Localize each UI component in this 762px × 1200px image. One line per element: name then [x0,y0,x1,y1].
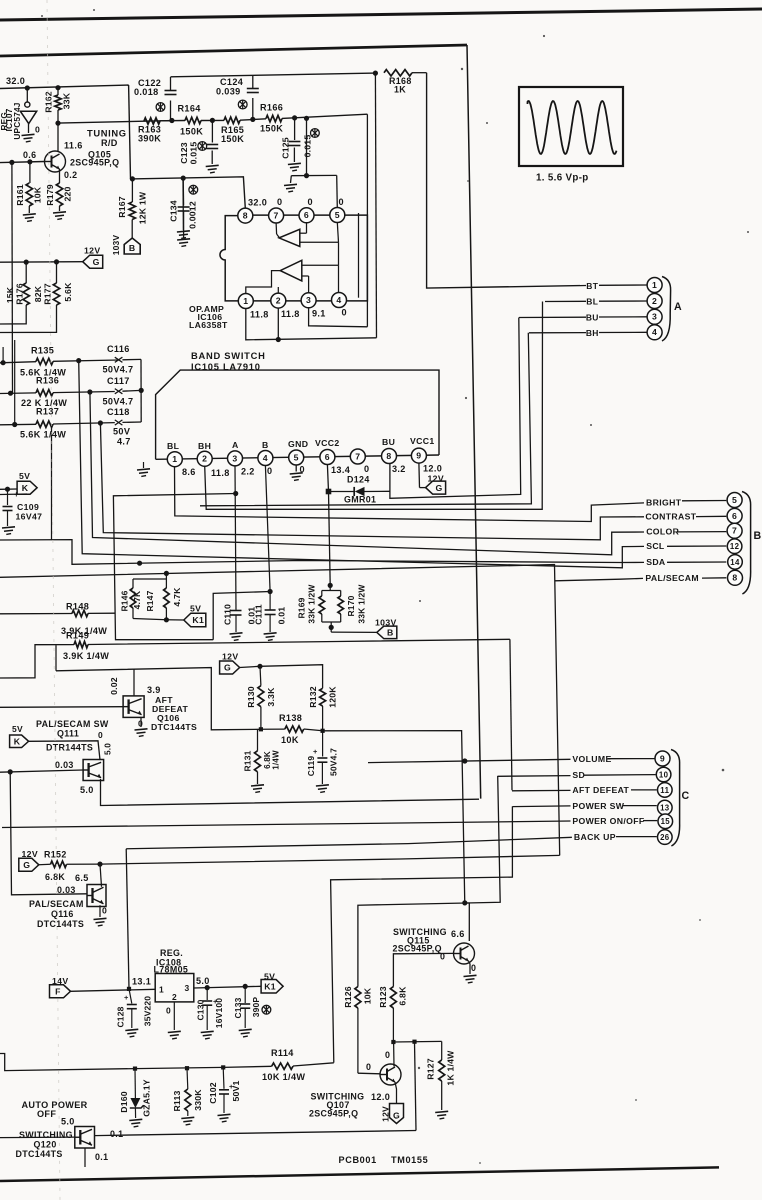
svg-text:GMR01: GMR01 [344,495,376,505]
svg-text:C117: C117 [107,376,130,386]
resistor R123 6.8K [390,987,396,1008]
capacitor C109 16V47 [7,489,9,505]
wire Q115 collector tap [466,903,469,941]
capacitor C128 35V220 [129,989,132,1004]
svg-text:BL: BL [167,441,180,451]
capacitor C134 0.0012 [182,178,184,205]
svg-text:3.9K 1/4W: 3.9K 1/4W [63,651,109,661]
svg-text:33K 1/2W: 33K 1/2W [306,584,316,623]
svg-text:0.03: 0.03 [57,885,76,895]
svg-text:50V4.7: 50V4.7 [328,748,338,776]
connector A pin 3 [647,309,662,324]
connector C pin 26 [658,830,673,845]
wire AFT filter to VOLUME riser [323,731,465,905]
resistor R138 10K [261,728,285,730]
svg-text:C111: C111 [253,604,263,625]
svg-text:0.1: 0.1 [95,1152,108,1162]
svg-text:POWER SW: POWER SW [572,801,624,811]
wire COLOR net from R136 row [90,391,644,555]
connector B pin 6 [727,508,742,523]
svg-text:6: 6 [304,210,309,220]
resistor R148 3.9K 1/4W [0,613,72,615]
connector B pin 14 [728,555,743,570]
ground [2,527,15,528]
connector B bracket [742,492,751,595]
svg-text:G: G [23,860,30,870]
svg-text:3: 3 [185,983,190,993]
connector C pin 15 [658,814,673,829]
svg-text:9: 9 [660,753,665,763]
wire R177 bottom to left [0,305,57,333]
connector A pin 4 [647,325,662,340]
svg-text:K: K [22,483,29,493]
junction [292,115,297,120]
ground [288,163,301,164]
flag 5V K [0,488,17,490]
svg-text:R/D: R/D [101,138,118,148]
resistor R149 3.9K 1/4W [0,645,74,678]
svg-text:8: 8 [243,211,248,221]
capacitor C130 16V100 [206,988,208,1000]
junction [55,85,60,90]
svg-text:3: 3 [652,312,657,322]
svg-text:PAL/SECAM: PAL/SECAM [645,573,699,583]
ground [125,1029,138,1030]
resistor R135 5.6K 1/4W [0,362,36,363]
svg-text:5: 5 [294,452,299,462]
wire 14V to IC108 [71,989,156,991]
wire left vertical from base row down to R136 row [11,162,14,392]
junction [276,337,281,342]
test point [262,1005,271,1014]
svg-text:SDA: SDA [646,557,666,567]
svg-text:CONTRAST: CONTRAST [645,511,696,521]
wire SD row [498,775,571,778]
op-amp triangle 2 [280,260,302,281]
resistor pair R146 R147 4.7K [165,573,167,579]
svg-text:4.7K: 4.7K [172,587,182,607]
svg-text:12V: 12V [222,652,238,662]
svg-text:12V: 12V [22,849,38,859]
svg-text:0: 0 [277,197,282,207]
wire top border line [0,9,762,20]
capacitor C123 0.015 [211,120,213,142]
svg-text:330K: 330K [193,1089,203,1111]
svg-text:7: 7 [732,526,737,536]
capacitor C119 50V4.7 [322,731,324,757]
svg-text:10K: 10K [281,735,299,745]
junction [164,571,169,576]
svg-text:BL: BL [586,297,598,307]
wire R176 bottom to left [0,305,26,324]
wire to pin5 [336,175,339,207]
wire POWER ON/OFF line [2,823,401,828]
svg-text:D160: D160 [119,1091,129,1113]
svg-text:0.6: 0.6 [23,150,36,160]
svg-text:150K: 150K [180,127,203,137]
svg-text:14: 14 [730,558,740,567]
wire second border line [0,45,467,56]
connector C pin 13 [658,800,673,815]
svg-text:+: + [313,747,318,756]
svg-text:0: 0 [35,124,40,134]
svg-text:BH: BH [198,441,211,451]
svg-text:DTC144TS: DTC144TS [151,722,197,732]
svg-text:R136: R136 [36,376,59,386]
svg-text:B: B [262,440,269,450]
svg-text:0: 0 [166,1006,171,1016]
svg-text:16V100: 16V100 [214,998,224,1028]
wire SCL net from R135 row [79,360,644,567]
svg-text:8: 8 [386,451,391,461]
svg-text:R148: R148 [66,602,89,612]
wire Q107 emitter to 12V flag [395,1082,397,1104]
svg-text:R164: R164 [178,104,202,114]
svg-text:SCL: SCL [646,541,665,551]
IC105 pin 5 [289,450,304,465]
svg-text:10K 1/4W: 10K 1/4W [262,1072,305,1082]
svg-text:5.0: 5.0 [80,785,94,795]
svg-text:5V: 5V [19,471,30,481]
wire BU line [519,316,586,318]
wire bottom border line [0,1167,719,1181]
svg-text:0.02: 0.02 [109,677,119,695]
svg-text:DTR144TS: DTR144TS [46,743,93,753]
svg-text:6: 6 [732,511,737,521]
wire vertical stub [51,424,53,540]
svg-text:BT: BT [586,281,598,291]
resistor R136 22K 1/4W [0,392,36,395]
svg-text:TUNING: TUNING [87,128,127,138]
svg-text:2SC945P,Q: 2SC945P,Q [393,944,442,954]
test point [198,142,207,151]
svg-text:K: K [14,737,21,747]
wire C110 lead from pin3 [235,466,236,610]
svg-text:+: + [14,490,19,499]
svg-text:C109: C109 [17,502,39,512]
wire IC106 pin3 rail [309,308,368,327]
wire drop to Q120 line [415,1042,417,1131]
resistor R165 150K [224,117,240,123]
svg-text:G: G [436,483,443,493]
svg-text:Q120: Q120 [34,1140,57,1150]
transistor Q105 2SC945P,Q TUNING [57,123,59,151]
wire pin6 riser to RC rail [306,118,308,175]
svg-text:0.039: 0.039 [216,87,241,97]
resistor R161 10K [29,162,31,183]
junction [24,260,29,265]
svg-text:C125: C125 [280,137,290,159]
connector C bracket [671,750,680,847]
resistor R114 10K 1/4W [272,1063,293,1069]
wire pin6 down with D124 junction [327,464,328,491]
svg-text:UPC574J: UPC574J [13,102,22,139]
regulator IC108 L78M05 [155,974,194,1002]
capacitor C122 0.018 [170,101,172,121]
wire Q120 collector line [95,1131,417,1136]
svg-text:C119: C119 [306,756,316,777]
svg-text:G: G [93,257,100,267]
op-amp IC106 pin 2 [271,293,286,308]
svg-text:3.9: 3.9 [147,685,161,695]
svg-text:9: 9 [416,451,421,461]
svg-text:16V47: 16V47 [16,512,43,522]
capacitor C133 390P [244,986,246,1003]
test point [311,129,320,138]
connector A bracket [662,277,671,342]
svg-text:R123: R123 [378,986,388,1008]
svg-text:12V: 12V [84,246,100,256]
resistor pair R169 R170 33K 1/2W [328,583,333,588]
diode D124 GMR01 [329,491,355,493]
wire SDA net [0,540,644,565]
svg-text:10K: 10K [32,186,42,203]
capacitor C118 50V 4.7 [115,420,123,425]
wire ground tap on rail [182,178,184,230]
wire stub above R135 row [2,347,4,363]
op-amp IC106 pin 3 [301,293,316,308]
resistor R126 10K [355,987,361,1008]
band switch IC105 LA7910 outline [156,370,439,459]
junction [169,118,174,123]
svg-text:R161: R161 [15,184,25,206]
svg-text:12: 12 [730,542,740,551]
resistor R162 33K [57,88,59,95]
svg-text:0.015: 0.015 [188,142,198,165]
svg-text:R146: R146 [119,590,129,611]
svg-text:5.0: 5.0 [103,743,112,755]
wire 12V rail [0,261,83,264]
IC105 pin 3 [228,451,243,466]
ground [435,1111,448,1112]
IC105 pin 6 [320,450,335,465]
svg-text:1: 1 [243,296,248,306]
svg-text:C134: C134 [168,200,178,222]
junction [373,71,378,76]
svg-text:7: 7 [274,210,279,220]
wire BL line [545,300,586,302]
IC106 internal wires [275,223,278,234]
wire [201,119,224,121]
svg-text:C118: C118 [107,407,130,417]
svg-text:DTC144TS: DTC144TS [16,1149,63,1159]
svg-text:D124: D124 [347,475,370,485]
wire VOLUME row [368,759,571,762]
svg-text:6.6: 6.6 [451,929,465,939]
junction [321,729,325,733]
junction [259,727,263,731]
svg-text:0.1: 0.1 [110,1129,123,1139]
svg-text:1/4W: 1/4W [271,750,280,770]
svg-text:BRIGHT: BRIGHT [646,498,682,508]
svg-text:0.0012: 0.0012 [188,201,198,229]
connector A pin 1 [647,278,662,293]
junction [55,121,60,126]
capacitor C117 [115,389,123,394]
ground [181,1117,194,1118]
svg-text:120K: 120K [327,686,337,708]
wire IC106 bottom rail [246,308,377,340]
connector C pin 9 [655,751,670,766]
resistor R152 6.8K [39,863,51,866]
IC105 pin 1 [167,452,182,467]
connector B pin 5 [727,493,742,508]
resistor R167 12K 1W [131,179,133,202]
wire PAL/SECAM net [0,565,560,856]
svg-text:9.1: 9.1 [312,309,326,319]
wire IC105 pin3 branch to R148 [233,491,238,496]
svg-text:13.4: 13.4 [331,465,351,475]
svg-text:R114: R114 [271,1048,294,1058]
svg-text:C124: C124 [220,77,244,87]
wire Q106 collector [133,669,135,696]
svg-text:REG.: REG. [160,948,183,958]
connector B pin 12 [727,539,742,554]
ground [284,184,297,185]
wire lower rail y178 to IC106 pin8 [131,177,246,209]
svg-text:VOLUME: VOLUME [572,754,611,764]
svg-text:A: A [232,440,239,450]
resistor R168 1K [384,70,412,76]
svg-text:1K 1/4W: 1K 1/4W [445,1050,455,1086]
wire bottom rail [0,1054,272,1071]
svg-text:2SC945P,Q: 2SC945P,Q [70,157,119,167]
svg-text:2SC945P,Q: 2SC945P,Q [309,1109,358,1119]
capacitor C124 0.039 [252,98,254,119]
svg-text:BACK UP: BACK UP [574,832,616,842]
svg-text:0: 0 [366,1062,371,1072]
svg-text:R130: R130 [246,686,256,708]
svg-text:10: 10 [659,770,669,779]
op-amp IC106 pin 5 [330,208,345,223]
wire Q111 emitter [101,779,480,806]
svg-text:11: 11 [660,786,669,795]
svg-text:+: + [124,993,129,1002]
svg-text:3: 3 [232,453,237,463]
wire Q116 emitter ground [99,905,101,917]
svg-text:A: A [674,301,682,313]
svg-text:C128: C128 [115,1006,125,1027]
wire long vertical from border corner down right side [467,45,481,799]
junction [27,159,32,164]
ground [53,212,66,213]
svg-text:5.0: 5.0 [196,976,210,986]
wire R162 bottom to R163 rail [58,121,144,123]
svg-text:150K: 150K [260,124,283,134]
junction [304,173,309,178]
junction [250,117,255,122]
svg-text:R170: R170 [346,595,356,616]
svg-text:R169: R169 [296,597,306,618]
svg-text:C102: C102 [208,1082,218,1104]
svg-text:R135: R135 [31,346,54,356]
svg-text:5V: 5V [190,604,201,614]
zener D160 GZA5.1Y [134,1069,136,1098]
wire PAL/SECAM branch to label [555,578,643,580]
wire BRIGHT net from IC105 pin1 [175,466,645,522]
capacitor C102 50V1 [222,1067,225,1088]
wire junction row [393,1040,441,1043]
resistor R132 120K [320,688,326,706]
svg-text:B: B [387,628,394,638]
wire Q111 base junction drop to Q116 [10,772,87,895]
wire [160,120,185,122]
svg-text:C116: C116 [107,344,130,354]
ground [251,785,264,786]
svg-text:5.6K 1/4W: 5.6K 1/4W [20,430,66,440]
svg-text:33K: 33K [61,92,71,109]
svg-text:12.0: 12.0 [371,1092,390,1102]
svg-text:B: B [129,243,136,253]
wire R168 to BT line [427,73,580,288]
wire SD net column [358,776,500,987]
svg-text:R113: R113 [172,1090,182,1111]
wire Q115 base [393,953,453,986]
IC105 pin 2 [197,451,212,466]
svg-text:15: 15 [661,817,671,826]
svg-text:8: 8 [732,573,737,583]
svg-text:R167: R167 [117,196,127,218]
svg-text:11.8: 11.8 [281,309,300,319]
op-amp IC106 pin 6 [299,208,314,223]
svg-text:0: 0 [385,1050,390,1060]
svg-text:R131: R131 [242,750,252,771]
junction [25,85,30,90]
svg-text:32.0: 32.0 [248,198,267,208]
op-amp IC106 pin 8 [238,208,253,223]
svg-text:5: 5 [335,210,340,220]
wire to R132 branch [260,665,323,689]
svg-text:5.0: 5.0 [61,1117,75,1127]
wire R149 row to AFT corner [88,639,510,644]
connector C pin 11 [658,783,673,798]
capacitor C116 50V4.7 [115,357,123,362]
svg-text:6: 6 [325,452,330,462]
svg-text:COLOR: COLOR [646,527,679,537]
svg-text:0: 0 [308,197,313,207]
op-amp IC106 pin 4 [332,293,347,308]
wire R148 link to C111 node [213,592,270,640]
svg-text:4.7: 4.7 [117,436,131,446]
junction [130,176,135,181]
wire BACK UP row [408,837,572,843]
op-amp triangle 1 [279,229,300,246]
junction [137,561,142,566]
svg-text:BU: BU [382,437,395,447]
wire R152 node to PAL/SECAM vertical [100,855,560,864]
wire AFT defeat drop [510,639,512,790]
svg-text:PAL/SECAM SW: PAL/SECAM SW [36,719,109,729]
svg-text:11.8: 11.8 [250,310,269,320]
svg-text:R179: R179 [45,184,55,206]
wire POWER ON/OFF row [401,821,571,823]
IC105 pin 8 [382,449,397,464]
svg-text:220: 220 [62,186,72,201]
svg-text:50V4.7: 50V4.7 [103,397,134,407]
svg-text:35V220: 35V220 [143,996,153,1026]
ground [23,214,36,215]
wire pin9 to 12V flag [418,463,421,488]
svg-text:IC105 LA7910: IC105 LA7910 [191,362,261,372]
wire POWER SW row [512,805,570,808]
svg-text:5.6K: 5.6K [63,282,73,302]
ground left of pin1 [143,462,145,468]
svg-text:1. 5.6 Vp-p: 1. 5.6 Vp-p [536,173,589,184]
IC105 pin5 ground [295,465,297,472]
svg-text:G: G [393,1111,400,1121]
svg-text:7: 7 [355,451,360,461]
junction [181,176,186,181]
